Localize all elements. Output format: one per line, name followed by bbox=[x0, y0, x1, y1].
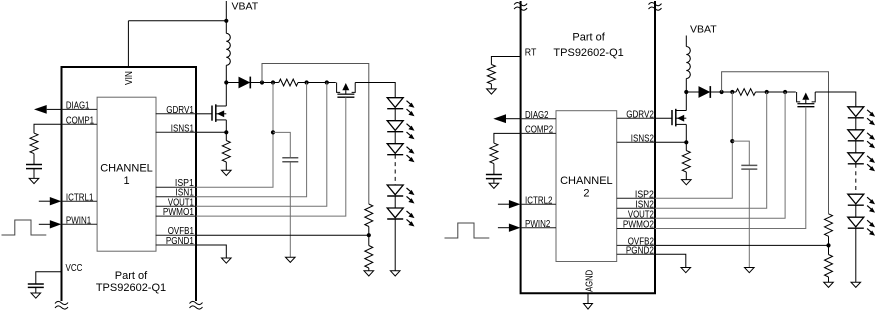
transistor Q3 boost NMOS (channel 2) bbox=[672, 92, 686, 142]
svg-text:RT: RT bbox=[525, 48, 537, 59]
ground (ISNS1 sense resistor) bbox=[222, 170, 232, 175]
node ISNS2 junction dot bbox=[684, 140, 688, 144]
svg-text:Part of: Part of bbox=[115, 270, 148, 282]
ground (RT resistor) bbox=[487, 89, 497, 94]
wire LED string break dashed (channel 2) bbox=[855, 164, 857, 194]
wire PGND1 to ground bbox=[196, 245, 226, 258]
wire output row to sense resistor bbox=[262, 82, 279, 84]
pin ISNS1 label and stub bbox=[156, 123, 196, 134]
pin AGND label and stub bbox=[585, 270, 596, 304]
node ISN1 junction dot bbox=[305, 80, 309, 84]
arrow DIAG1 (output indicator) bbox=[34, 105, 47, 114]
arrow ICTRL1 (input indicator) bbox=[50, 197, 62, 205]
capacitor C_vcc (VCC bypass) bbox=[28, 284, 44, 293]
wire DIAG1 output bbox=[47, 108, 62, 110]
IC U1 outer box (channel 2, part of TPS92602-Q1) bbox=[521, 1, 655, 293]
wire output cap branch bbox=[273, 132, 290, 257]
resistor R_isns2 (switch current sense) bbox=[682, 142, 690, 179]
LED string D8-D10 (channel 2 upper LEDs) bbox=[848, 107, 875, 172]
node OVFB2 divider tap dot bbox=[826, 243, 830, 247]
svg-text:DIAG2: DIAG2 bbox=[525, 110, 549, 121]
label Part of TPS92602-Q1 (channel 1) bbox=[96, 270, 166, 294]
IC U1 box-break squiggle, right edge top bbox=[649, 2, 662, 10]
pin PWIN1 label and stub bbox=[62, 216, 98, 227]
arrow ICTRL2 (input indicator) bbox=[509, 200, 521, 208]
wire sense resistor to PMOS (channel 2) bbox=[756, 91, 796, 93]
ground (AGND) bbox=[584, 304, 593, 310]
wire PWIN1 input bbox=[39, 223, 51, 225]
transistor Q2 PWM dimming PMOS (channel 1) bbox=[337, 83, 356, 98]
ground (OVFB2 divider) bbox=[824, 282, 834, 287]
wire GDRV1 to gate bbox=[196, 113, 212, 115]
diode D7 (boost rectifier, channel 2) bbox=[686, 86, 721, 98]
wire PWIN2 input bbox=[498, 227, 510, 229]
label Part of TPS92602-Q1 (channel 2) bbox=[553, 31, 623, 59]
pin ISNS2 label and stub bbox=[617, 134, 655, 145]
wire LED string break (dashed) bbox=[394, 155, 396, 185]
net VBAT (channel 1) label and wire bbox=[226, 1, 258, 34]
svg-text:TPS92602-Q1: TPS92602-Q1 bbox=[553, 47, 623, 59]
pin VOUT1 label and stub bbox=[156, 197, 196, 208]
pulse waveform symbol (PWM input, channel 1) bbox=[2, 220, 47, 235]
svg-text:GDRV2: GDRV2 bbox=[626, 109, 654, 120]
diode D1 (boost rectifier, channel 1) bbox=[226, 77, 262, 89]
wire ISN2 run bbox=[655, 92, 767, 208]
wire VCC to bypass cap bbox=[36, 272, 62, 284]
node ISP2 junction dot bbox=[730, 90, 734, 94]
pin PGND1 label and stub bbox=[156, 236, 196, 247]
pin ISN2 label and stub bbox=[617, 199, 655, 210]
svg-text:PWIN1: PWIN1 bbox=[66, 216, 91, 227]
pin PWIN2 label and stub bbox=[521, 219, 556, 230]
pin COMP1 label and stub bbox=[62, 115, 98, 126]
node VOUT2 cathode junction dot bbox=[720, 90, 724, 94]
svg-text:PWIN2: PWIN2 bbox=[525, 219, 550, 230]
svg-text:ISNS2: ISNS2 bbox=[631, 134, 654, 145]
wire PWMO1 run to PMOS gate bbox=[196, 97, 346, 216]
wire VOUT2 top feed to OVFB divider bbox=[722, 72, 829, 214]
svg-text:TPS92602-Q1: TPS92602-Q1 bbox=[96, 282, 166, 294]
ground (PGND2) bbox=[681, 268, 691, 273]
IC U1 box-break squiggle, left edge top bbox=[514, 2, 527, 10]
wire COMP2 to RC network bbox=[494, 133, 521, 143]
pin DIAG1 label and stub bbox=[62, 101, 98, 112]
pin RT label bbox=[525, 48, 537, 59]
inductor L2 (boost inductor, channel 2) bbox=[686, 47, 690, 79]
svg-text:Part of: Part of bbox=[572, 31, 605, 43]
node SW1 switch-node junction dot bbox=[224, 80, 228, 84]
ground (LED string, channel 1) bbox=[390, 271, 400, 276]
svg-text:PGND2: PGND2 bbox=[626, 245, 654, 256]
svg-text:AGND: AGND bbox=[585, 270, 596, 292]
pin GDRV2 label and stub bbox=[617, 109, 655, 120]
pin VCC label bbox=[66, 263, 83, 274]
pin ICTRL2 label and stub bbox=[521, 195, 556, 206]
wire LED string to ground bbox=[394, 219, 396, 271]
node ISNS1 junction dot bbox=[224, 130, 228, 134]
node ISN2 junction dot bbox=[765, 90, 769, 94]
transistor Q4 PWM dimming PMOS (channel 2) bbox=[797, 92, 816, 107]
pin ISP2 label and stub bbox=[617, 189, 655, 200]
arrow PWIN2 (input indicator) bbox=[509, 224, 521, 232]
IC U1 box-break squiggle, right edge bottom bbox=[190, 301, 203, 309]
IC U1 outer box (channel 1, part of TPS92602-Q1) bbox=[62, 67, 197, 301]
wire ISNS1 to sense node bbox=[196, 131, 226, 133]
pin VOUT2 label and stub bbox=[617, 209, 655, 220]
pin ISN1 label and stub bbox=[156, 188, 196, 199]
ground (output capacitor, channel 1) bbox=[286, 257, 296, 262]
wire PMOS drain to LED string (channel 2) bbox=[815, 92, 856, 107]
ground (VCC bypass cap) bbox=[31, 293, 41, 298]
ground (LED string, channel 2) bbox=[851, 282, 861, 287]
pulse waveform symbol (PWM input, channel 2) bbox=[445, 223, 490, 238]
inductor L1 (boost inductor, channel 1) bbox=[226, 33, 230, 65]
wire output cap branch (channel 2) bbox=[732, 141, 749, 267]
IC U1 box-break squiggle, left edge bottom bbox=[55, 301, 68, 309]
node VOUT1-pin junction dot bbox=[325, 80, 329, 84]
wire ISP1 run bbox=[196, 83, 273, 188]
wire PGND2 to ground bbox=[655, 254, 686, 267]
svg-text:VCC: VCC bbox=[66, 263, 83, 274]
LED string D5-D6 (channel 1 lower LEDs) bbox=[387, 185, 414, 227]
wire VIN to VBAT node bbox=[128, 20, 226, 22]
arrow DIAG2 (output indicator) bbox=[493, 114, 506, 123]
ground (PGND1) bbox=[222, 258, 232, 263]
wire DIAG2 output bbox=[506, 118, 521, 120]
ground (COMP1 network) bbox=[29, 178, 39, 183]
node VOUT1 cathode junction dot bbox=[260, 80, 264, 84]
node output-cap tap dot bbox=[271, 130, 275, 134]
pin DIAG2 label and stub bbox=[521, 110, 556, 121]
svg-text:1: 1 bbox=[123, 175, 129, 187]
capacitor C_out1 (output capacitor, channel 1) bbox=[282, 158, 298, 162]
pin PGND2 label and stub bbox=[617, 245, 655, 256]
resistor R_ovfb1_top (OV divider upper) bbox=[365, 204, 373, 235]
node VBAT junction dot bbox=[224, 19, 228, 23]
inner block CHANNEL 1 bbox=[97, 97, 156, 251]
pin ICTRL1 label and stub bbox=[62, 192, 98, 203]
wire ICTRL1 input bbox=[39, 200, 51, 202]
resistor R_rt (oscillator timing) bbox=[487, 65, 495, 89]
wire LED string to ground (channel 2) bbox=[855, 228, 857, 282]
resistor R_sense1 (LED current sense, channel 1) bbox=[279, 79, 298, 86]
wire VOUT1 run bbox=[196, 83, 327, 207]
svg-text:COMP1: COMP1 bbox=[66, 115, 94, 126]
wire PMOS drain to LED string bbox=[355, 83, 395, 98]
ground (ISNS2 sense resistor) bbox=[682, 180, 692, 185]
LED string D2-D4 (channel 1 upper LEDs) bbox=[387, 98, 414, 163]
transistor Q1 boost NMOS (channel 1) bbox=[212, 83, 226, 133]
resistor R_ovfb1_bot (OV divider lower) bbox=[365, 235, 373, 271]
node ISP1 junction dot bbox=[271, 80, 275, 84]
wire sense resistor to PMOS bbox=[298, 82, 336, 84]
wire VOUT1 top feed to OVFB divider bbox=[262, 64, 369, 205]
arrow PWIN1 (input indicator) bbox=[50, 220, 62, 228]
resistor R_sense2 (LED current sense, channel 2) bbox=[736, 89, 756, 96]
svg-text:DIAG1: DIAG1 bbox=[66, 101, 90, 112]
wire ICTRL2 input bbox=[498, 203, 510, 205]
pin PWMO2 label and stub bbox=[617, 220, 655, 231]
wire COMP1 to RC network bbox=[34, 124, 62, 133]
svg-text:CHANNEL: CHANNEL bbox=[100, 163, 153, 175]
pin ISP1 label and stub bbox=[156, 178, 196, 189]
LED string D11-D12 (channel 2 lower LEDs) bbox=[848, 194, 875, 236]
svg-text:PWMO2: PWMO2 bbox=[623, 220, 654, 231]
svg-text:VIN: VIN bbox=[124, 71, 135, 85]
wire inductor to switch node (channel 2) bbox=[685, 79, 687, 93]
ground (output capacitor, channel 2) bbox=[745, 268, 755, 273]
svg-text:VBAT: VBAT bbox=[232, 1, 259, 13]
resistor R_comp1 bbox=[30, 133, 38, 164]
net VBAT (channel 2) label and wire bbox=[686, 24, 717, 47]
resistor R_ovfb2_bot (OV divider lower) bbox=[825, 245, 833, 282]
capacitor C_out2 (output capacitor, channel 2) bbox=[741, 165, 757, 169]
node output-cap tap dot (channel 2) bbox=[730, 139, 734, 143]
capacitor C_comp1 bbox=[26, 165, 42, 179]
svg-text:ICTRL2: ICTRL2 bbox=[525, 195, 553, 206]
ground (COMP2 network) bbox=[489, 183, 499, 188]
svg-text:VBAT: VBAT bbox=[690, 24, 717, 36]
wire PWMO2 run to PMOS gate bbox=[655, 107, 806, 229]
capacitor C_comp2 bbox=[486, 175, 502, 184]
wire ISP2 run bbox=[655, 92, 732, 198]
svg-text:2: 2 bbox=[583, 188, 589, 200]
node SW2 switch-node junction dot bbox=[684, 90, 688, 94]
resistor R_isns1 (switch current sense) bbox=[222, 132, 230, 170]
wire RT to resistor bbox=[491, 57, 520, 65]
inner block CHANNEL 2 bbox=[556, 111, 617, 262]
resistor R_comp2 bbox=[490, 143, 498, 174]
wire VOUT2 run bbox=[655, 92, 785, 218]
pin VIN (U1 top) with rotated label bbox=[124, 21, 135, 85]
ground (OVFB1 divider) bbox=[364, 271, 374, 276]
wire ISNS2 to sense node bbox=[655, 141, 686, 143]
svg-text:CHANNEL: CHANNEL bbox=[560, 175, 613, 187]
pin COMP2 label and stub bbox=[521, 125, 556, 136]
wire GDRV2 to gate bbox=[655, 117, 672, 119]
resistor R_ovfb2_top (OV divider upper) bbox=[825, 214, 833, 246]
pin OVFB1 label and stub bbox=[156, 226, 196, 237]
node VOUT2-pin junction dot bbox=[783, 90, 787, 94]
wire output row to sense resistor (channel 2) bbox=[722, 91, 736, 93]
svg-text:ICTRL1: ICTRL1 bbox=[66, 192, 94, 203]
wire ISN1 run bbox=[196, 83, 307, 197]
svg-text:COMP2: COMP2 bbox=[525, 125, 553, 136]
pin OVFB2 label and stub bbox=[617, 237, 655, 248]
pin GDRV1 label and stub bbox=[156, 105, 196, 116]
wire OVFB1 run bbox=[196, 234, 369, 236]
pin PWMO1 label and stub bbox=[156, 207, 196, 218]
wire inductor to switch node bbox=[225, 65, 227, 82]
node OVFB1 divider tap dot bbox=[367, 233, 371, 237]
wire OVFB2 run bbox=[655, 244, 829, 246]
